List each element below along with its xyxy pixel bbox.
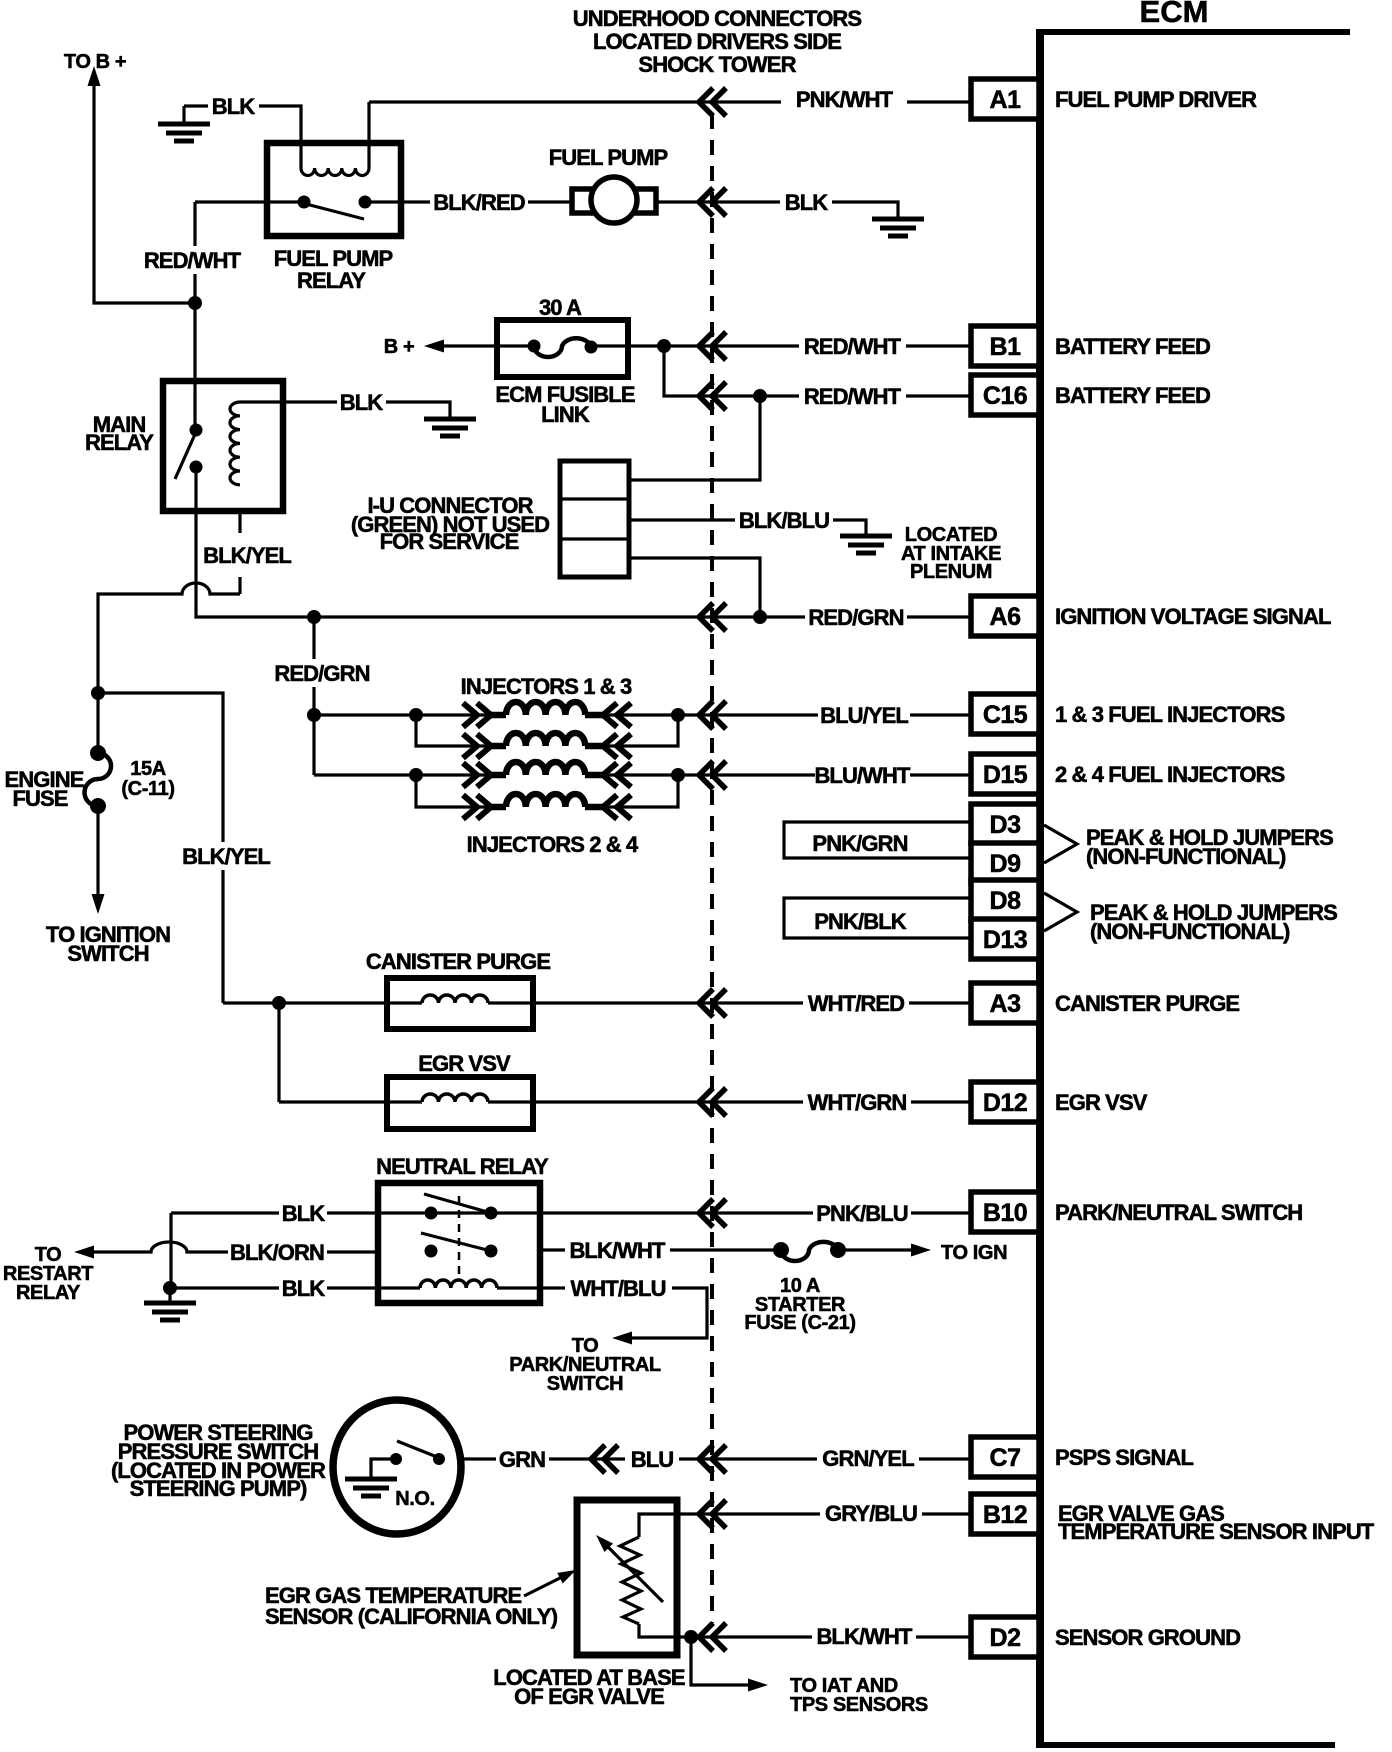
engine fuse 15A bbox=[91, 686, 105, 700]
svg-text:RED/WHT: RED/WHT bbox=[144, 248, 242, 273]
svg-text:BLK/RED: BLK/RED bbox=[433, 190, 524, 215]
svg-text:BLU/YEL: BLU/YEL bbox=[820, 703, 908, 728]
ground G1 (fuel pump relay coil) bbox=[182, 106, 185, 124]
svg-text:BLK: BLK bbox=[212, 94, 256, 119]
svg-text:EGR VSV: EGR VSV bbox=[1055, 1090, 1148, 1115]
main relay switch bbox=[190, 424, 203, 437]
injector coil row y=807 bbox=[490, 804, 506, 811]
ECM pin D12 bbox=[971, 1082, 1039, 1122]
injector coil row y=775 bbox=[490, 772, 506, 779]
label arrow to EGR sensor bbox=[524, 1573, 570, 1596]
svg-text:RED/GRN: RED/GRN bbox=[808, 605, 903, 630]
ground G5 (neutral relay) bbox=[168, 1289, 171, 1303]
svg-text:IGNITION VOLTAGE SIGNAL: IGNITION VOLTAGE SIGNAL bbox=[1055, 604, 1331, 629]
ECM pin D13 bbox=[971, 919, 1039, 959]
ECM pin A6 bbox=[971, 596, 1039, 636]
svg-text:SWITCH: SWITCH bbox=[547, 1373, 623, 1395]
node TO PARK/NEUTRAL SWITCH bbox=[612, 1332, 632, 1345]
svg-text:D9: D9 bbox=[990, 850, 1021, 878]
svg-text:(NON-FUNCTIONAL): (NON-FUNCTIONAL) bbox=[1086, 844, 1286, 869]
wire: injector row4 bbox=[416, 775, 678, 807]
wire: I-U bottom cell to A6 row bbox=[629, 558, 760, 617]
svg-text:BLK: BLK bbox=[282, 1201, 326, 1226]
wire: neutral relay row3 BLK bbox=[170, 1286, 540, 1289]
ground G4 (BLK/BLU intake plenum) bbox=[864, 534, 867, 537]
svg-text:OF EGR VALVE: OF EGR VALVE bbox=[514, 1684, 664, 1709]
wire: injector row3 to D15 BLU/WHT bbox=[314, 773, 971, 776]
injector coil row y=715 bbox=[490, 712, 506, 719]
wire: I-U top cell to C16 row bbox=[629, 396, 760, 480]
trunk connector chevron y=346 bbox=[699, 332, 726, 360]
svg-text:B12: B12 bbox=[983, 1501, 1027, 1529]
svg-text:B1: B1 bbox=[990, 333, 1022, 361]
wire: main relay coil BLK ground lead bbox=[240, 402, 450, 419]
svg-text:PNK/BLU: PNK/BLU bbox=[816, 1201, 907, 1226]
svg-text:TEMPERATURE SENSOR INPUT: TEMPERATURE SENSOR INPUT bbox=[1058, 1519, 1375, 1544]
ECM pin B12 bbox=[971, 1494, 1039, 1534]
wire: C16 branch RED/WHT bbox=[664, 346, 971, 396]
svg-text:BLU: BLU bbox=[631, 1447, 674, 1472]
wire: underhood connector dashed trunk bbox=[710, 114, 714, 1623]
svg-text:TPS SENSORS: TPS SENSORS bbox=[790, 1694, 928, 1716]
svg-text:FUSE: FUSE bbox=[12, 786, 67, 811]
wire: neutral relay left link bbox=[169, 1213, 172, 1288]
svg-text:D2: D2 bbox=[990, 1624, 1021, 1652]
trunk connector chevron y=1514 bbox=[699, 1500, 726, 1528]
wire: main relay switch to A6 RED/GRN row bbox=[196, 467, 971, 617]
svg-text:RED/WHT: RED/WHT bbox=[804, 384, 902, 409]
wire: EGR sensor bottom lead BLK/WHT to D2 bbox=[639, 1624, 971, 1637]
svg-text:PLENUM: PLENUM bbox=[910, 561, 992, 583]
wire: EGR VSV branch bbox=[277, 1003, 280, 1102]
wire: EGR VSV row to D12 WHT/GRN bbox=[279, 1100, 971, 1103]
wire: I-U mid cell BLK/BLU to ground bbox=[629, 520, 866, 536]
svg-text:D12: D12 bbox=[983, 1089, 1027, 1117]
ECM pin C7 bbox=[971, 1437, 1039, 1477]
wire: injector row1 to C15 BLU/YEL bbox=[314, 713, 971, 716]
svg-text:PARK/NEUTRAL SWITCH: PARK/NEUTRAL SWITCH bbox=[1055, 1200, 1302, 1225]
trunk connector chevron y=396 bbox=[699, 382, 726, 410]
wire: neutral relay row2 BLK/WHT to starter fuse bbox=[540, 1248, 916, 1251]
trunk connector chevron y=715 bbox=[699, 701, 726, 729]
wire: engine fuse column bbox=[96, 693, 99, 896]
wire: fuel pump to ground BLK bbox=[656, 202, 898, 219]
svg-text:BLK: BLK bbox=[785, 190, 829, 215]
ground G6 (PSPS) bbox=[369, 1477, 372, 1480]
svg-text:C16: C16 bbox=[983, 382, 1027, 410]
neutral relay switches bbox=[425, 1207, 438, 1220]
ground G2 (fuel pump) bbox=[896, 217, 899, 220]
svg-text:D3: D3 bbox=[990, 811, 1021, 839]
trunk connector chevron y=102 bbox=[699, 88, 726, 116]
ground G3 (main relay coil) bbox=[448, 417, 451, 420]
svg-text:C7: C7 bbox=[990, 1444, 1021, 1472]
svg-text:RELAY: RELAY bbox=[297, 268, 366, 293]
svg-text:UNDERHOOD CONNECTORS: UNDERHOOD CONNECTORS bbox=[573, 6, 862, 31]
wire: main relay coil BLK/YEL down bbox=[238, 511, 241, 594]
ECM pin D2 bbox=[971, 1617, 1039, 1657]
svg-text:D15: D15 bbox=[983, 761, 1028, 789]
svg-text:A1: A1 bbox=[990, 86, 1022, 114]
starter fuse 10A bbox=[773, 1242, 789, 1258]
svg-text:FUSE (C-21): FUSE (C-21) bbox=[744, 1312, 855, 1334]
svg-text:A6: A6 bbox=[990, 603, 1021, 631]
svg-text:BLK/WHT: BLK/WHT bbox=[816, 1624, 913, 1649]
svg-text:BATTERY FEED: BATTERY FEED bbox=[1055, 334, 1210, 359]
peak & hold jumper PNK/GRN bbox=[784, 822, 971, 858]
svg-text:BLU/WHT: BLU/WHT bbox=[814, 763, 911, 788]
trunk connector chevron y=1003 bbox=[699, 989, 726, 1017]
svg-text:SHOCK TOWER: SHOCK TOWER bbox=[638, 52, 796, 77]
svg-text:FUEL PUMP: FUEL PUMP bbox=[549, 145, 668, 170]
fuel pump relay coil bbox=[301, 168, 369, 176]
wire: BLK/RED relay to fuel pump bbox=[401, 200, 572, 203]
I-U connector box bbox=[560, 461, 629, 577]
trunk connector chevron y=617 bbox=[699, 603, 726, 631]
svg-text:SENSOR (CALIFORNIA ONLY): SENSOR (CALIFORNIA ONLY) bbox=[265, 1604, 558, 1629]
svg-text:BLK: BLK bbox=[282, 1276, 326, 1301]
svg-text:PNK/BLK: PNK/BLK bbox=[814, 909, 906, 934]
svg-text:(C-11): (C-11) bbox=[121, 778, 174, 800]
wire: canister purge row to A3 WHT/RED bbox=[223, 1001, 971, 1004]
main relay coil bbox=[230, 402, 240, 485]
svg-text:WHT/RED: WHT/RED bbox=[808, 991, 904, 1016]
trunk connector chevron y=1637 bbox=[699, 1623, 726, 1651]
svg-text:GRN: GRN bbox=[499, 1447, 545, 1472]
wire: fuel pump relay coil to A1 PNK/WHT bbox=[369, 102, 971, 168]
svg-text:WHT/BLU: WHT/BLU bbox=[570, 1276, 665, 1301]
svg-text:INJECTORS 2 & 4: INJECTORS 2 & 4 bbox=[467, 832, 639, 857]
ECM pin B1 bbox=[971, 326, 1039, 366]
svg-text:SWITCH: SWITCH bbox=[67, 941, 148, 966]
svg-text:ECM: ECM bbox=[1140, 0, 1209, 29]
ECM pin A3 bbox=[971, 983, 1039, 1023]
wire: PSPS to C7 GRN/YEL bbox=[390, 1457, 971, 1460]
svg-text:C15: C15 bbox=[983, 701, 1028, 729]
svg-text:SENSOR GROUND: SENSOR GROUND bbox=[1055, 1625, 1240, 1650]
wire: EGR sensor to IAT/TPS bbox=[691, 1637, 758, 1685]
svg-text:FUEL PUMP DRIVER: FUEL PUMP DRIVER bbox=[1055, 87, 1257, 112]
svg-text:D8: D8 bbox=[990, 887, 1022, 915]
wire: EGR sensor top lead GRY/BLU to B12 bbox=[639, 1514, 971, 1537]
svg-text:LOCATED DRIVERS SIDE: LOCATED DRIVERS SIDE bbox=[593, 29, 841, 54]
svg-text:B10: B10 bbox=[983, 1199, 1027, 1227]
svg-text:PNK/WHT: PNK/WHT bbox=[796, 87, 894, 112]
wire: injector row2 bbox=[416, 715, 678, 746]
svg-text:WHT/GRN: WHT/GRN bbox=[808, 1090, 907, 1115]
wire: neutral relay row1 BLK / PNK-BLU to B10 bbox=[171, 1211, 971, 1214]
svg-text:BLK/BLU: BLK/BLU bbox=[739, 508, 829, 533]
ECM pin D8 bbox=[971, 880, 1039, 920]
trunk connector chevron y=1213 bbox=[699, 1199, 726, 1227]
wire: B+ to fusible link to B1 RED/WHT bbox=[440, 344, 971, 347]
main relay box bbox=[163, 381, 283, 511]
wire: fuel pump relay coil ground lead bbox=[184, 106, 301, 168]
svg-text:15A: 15A bbox=[130, 758, 166, 780]
svg-text:BLK/YEL: BLK/YEL bbox=[203, 543, 291, 568]
svg-text:PSPS SIGNAL: PSPS SIGNAL bbox=[1055, 1445, 1193, 1470]
fuel pump relay box bbox=[267, 143, 401, 236]
wire: BLK/YEL branch to solenoids bbox=[98, 693, 223, 1003]
svg-text:RELAY: RELAY bbox=[85, 430, 154, 455]
svg-text:CANISTER PURGE: CANISTER PURGE bbox=[366, 949, 550, 974]
wire: RED/GRN injector feed riser bbox=[312, 617, 315, 775]
svg-text:2 & 4 FUEL INJECTORS: 2 & 4 FUEL INJECTORS bbox=[1055, 762, 1285, 787]
svg-text:NEUTRAL RELAY: NEUTRAL RELAY bbox=[376, 1154, 549, 1179]
trunk connector chevron y=1102 bbox=[699, 1088, 726, 1116]
wire: BLK/YEL hop line bbox=[98, 583, 240, 693]
ECM pin D9 bbox=[971, 843, 1039, 883]
svg-text:RELAY: RELAY bbox=[16, 1282, 81, 1304]
svg-text:N.O.: N.O. bbox=[395, 1488, 435, 1510]
svg-text:FOR SERVICE: FOR SERVICE bbox=[380, 529, 519, 554]
injector coil row y=746 bbox=[490, 743, 506, 750]
svg-text:BATTERY FEED: BATTERY FEED bbox=[1055, 383, 1210, 408]
svg-text:30 A: 30 A bbox=[539, 295, 582, 320]
ECM module outline bbox=[1036, 30, 1044, 1748]
wire: RED/WHT fuel pump relay feed bbox=[193, 202, 196, 430]
wire: fuel pump relay switch leads bbox=[195, 200, 401, 203]
wire: TO B+ riser bbox=[94, 80, 195, 303]
trunk connector chevron y=775 bbox=[699, 761, 726, 789]
svg-text:RED/WHT: RED/WHT bbox=[804, 334, 902, 359]
svg-text:GRY/BLU: GRY/BLU bbox=[825, 1501, 917, 1526]
svg-text:RED/GRN: RED/GRN bbox=[274, 661, 369, 686]
svg-text:A3: A3 bbox=[990, 990, 1021, 1018]
svg-text:CANISTER PURGE: CANISTER PURGE bbox=[1055, 991, 1239, 1016]
svg-text:BLK/YEL: BLK/YEL bbox=[182, 844, 270, 869]
svg-text:BLK/ORN: BLK/ORN bbox=[230, 1240, 324, 1265]
svg-text:STEERING PUMP): STEERING PUMP) bbox=[130, 1476, 307, 1501]
trunk connector chevron y=202 bbox=[699, 188, 726, 216]
svg-text:INJECTORS 1 & 3: INJECTORS 1 & 3 bbox=[461, 674, 632, 699]
thermistor zigzag bbox=[620, 1537, 641, 1624]
svg-text:PNK/GRN: PNK/GRN bbox=[812, 831, 907, 856]
fuel pump relay switch bbox=[298, 196, 311, 209]
EGR gas temperature sensor bbox=[577, 1500, 677, 1655]
svg-text:D13: D13 bbox=[983, 926, 1027, 954]
ECM pin C15 bbox=[971, 694, 1039, 734]
svg-text:BLK: BLK bbox=[340, 390, 384, 415]
ECM pin B10 bbox=[971, 1192, 1039, 1232]
svg-text:LINK: LINK bbox=[541, 402, 590, 427]
wire: WHT/BLU to park-neutral switch bbox=[540, 1288, 707, 1338]
svg-text:B +: B + bbox=[384, 336, 414, 358]
neutral relay coil bbox=[420, 1280, 497, 1288]
node TO RESTART RELAY bbox=[74, 1246, 94, 1259]
ECM pin D3 bbox=[971, 804, 1039, 844]
ECM pin A1 bbox=[971, 79, 1039, 119]
trunk connector chevron y=1459 bbox=[699, 1445, 726, 1473]
svg-text:EGR VSV: EGR VSV bbox=[418, 1051, 511, 1076]
svg-text:TO IGN: TO IGN bbox=[941, 1242, 1007, 1264]
svg-text:(NON-FUNCTIONAL): (NON-FUNCTIONAL) bbox=[1090, 919, 1290, 944]
wire: PSPS ground lead bbox=[371, 1459, 396, 1479]
svg-text:BLK/WHT: BLK/WHT bbox=[569, 1238, 666, 1263]
thermistor arrow bbox=[601, 1540, 663, 1602]
wire: neutral relay row2 BLK/ORN with hop bbox=[93, 1242, 378, 1252]
ECM pin D15 bbox=[971, 754, 1039, 794]
svg-text:GRN/YEL: GRN/YEL bbox=[822, 1446, 914, 1471]
peak & hold jumper PNK/BLK bbox=[784, 898, 971, 938]
ECM pin C16 bbox=[971, 375, 1039, 415]
svg-text:1 & 3 FUEL INJECTORS: 1 & 3 FUEL INJECTORS bbox=[1055, 702, 1285, 727]
